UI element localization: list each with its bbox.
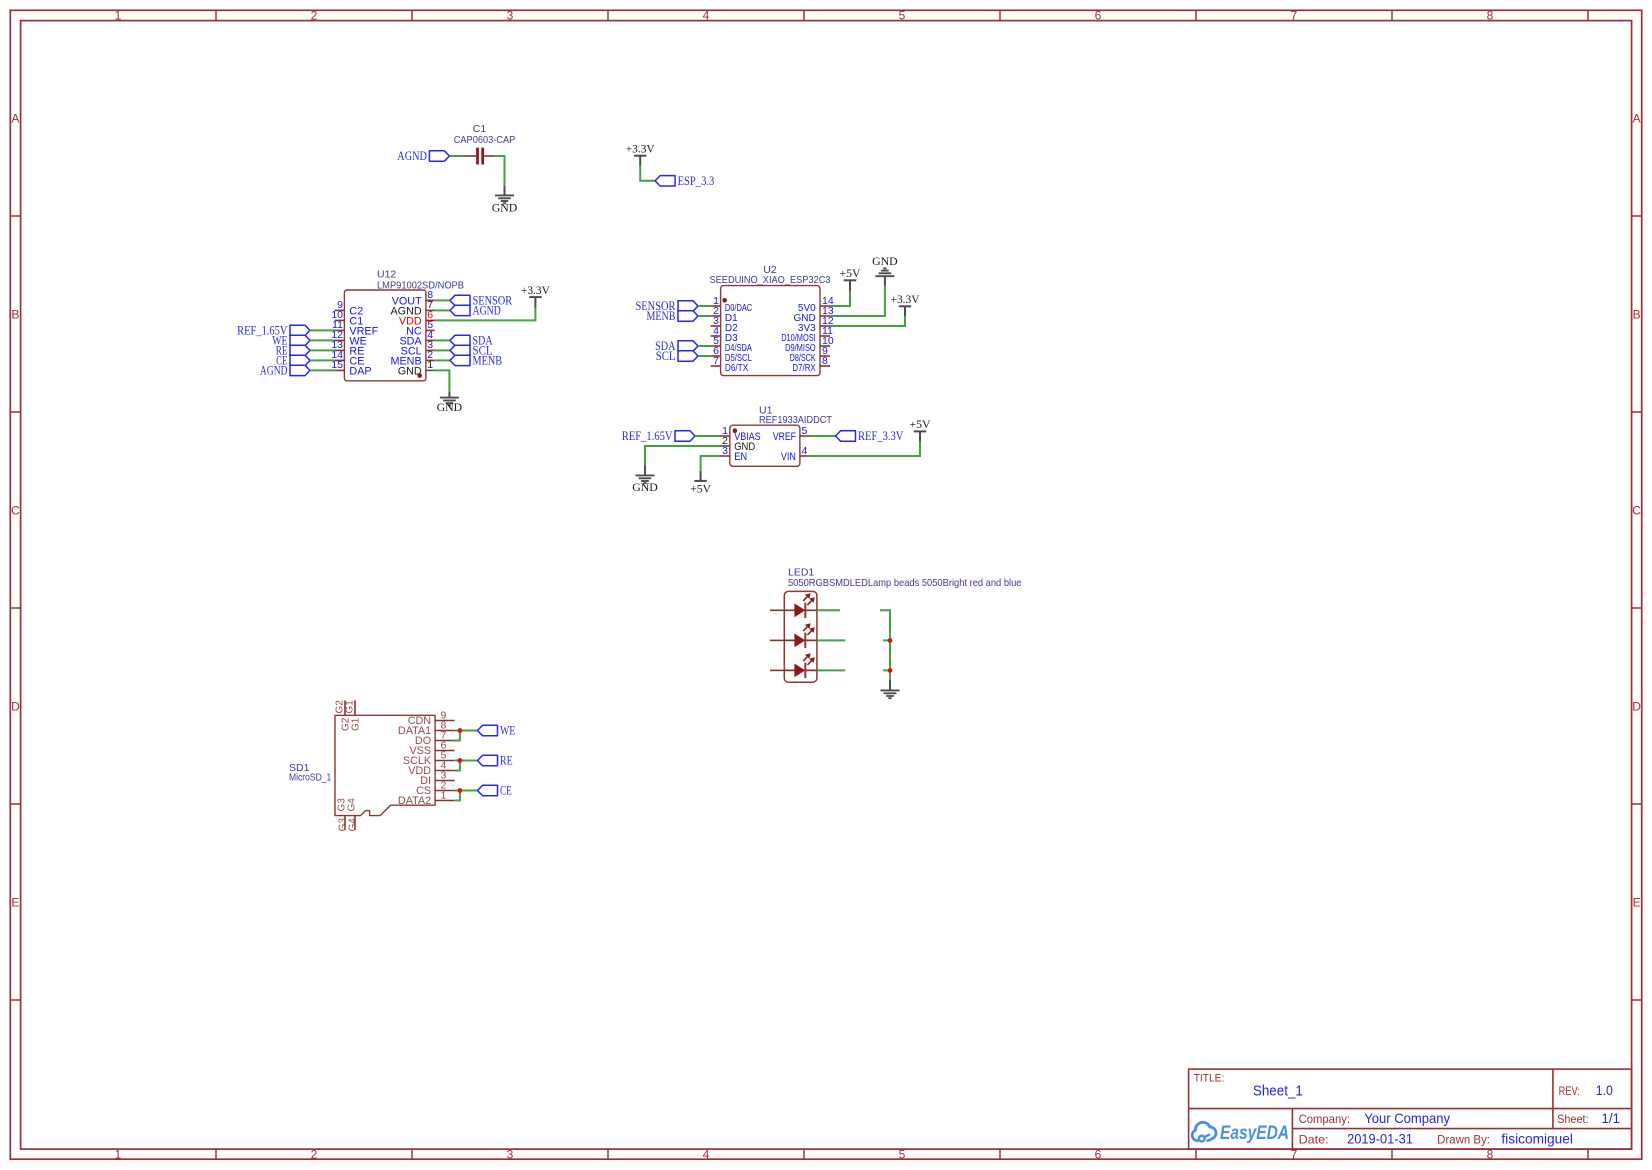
svg-text:AGND: AGND <box>397 148 427 163</box>
net flag SENSOR (U2) <box>636 298 699 313</box>
wire U1 VREF to REF_3.3V flag <box>810 435 836 437</box>
pin U2 pin 3 <box>711 325 721 327</box>
wire +3.3V stem (U2 right) (power stem) <box>904 307 906 317</box>
power symbol +5V (U1 right) <box>910 417 931 431</box>
wire U12 VDD to +3.3V <box>435 308 536 321</box>
svg-text:GND: GND <box>492 200 518 214</box>
pin C1 pin 2 <box>484 155 494 157</box>
svg-text:3: 3 <box>722 445 728 457</box>
wire +5V stem (U1 right) (power stem) <box>919 432 921 441</box>
wire U1 GND to ground <box>645 446 720 466</box>
svg-text:VREF: VREF <box>773 431 796 443</box>
wire SD1 lower pin join for RE <box>455 761 460 771</box>
wire SD1 to CE flag <box>455 790 478 792</box>
svg-text:D6/TX: D6/TX <box>725 363 749 374</box>
svg-text:EasyEDA: EasyEDA <box>1220 1123 1289 1144</box>
power symbol +3.3V (ESP) <box>626 142 655 156</box>
ground symbol GND (LED1) <box>881 690 900 698</box>
svg-text:CAP0603-CAP: CAP0603-CAP <box>454 134 516 146</box>
wire SENSOR flag to U2 pin 1 <box>698 305 711 307</box>
wire SD1 to WE flag <box>455 730 478 732</box>
svg-text:GND: GND <box>632 480 658 494</box>
svg-text:+5V: +5V <box>840 266 861 280</box>
pin U1 pin 1 <box>720 435 730 437</box>
svg-text:MENB: MENB <box>647 308 676 323</box>
wire C1 ground stem (power stem) <box>504 186 506 196</box>
junction LED1 junction B <box>888 668 893 673</box>
svg-text:SCL: SCL <box>656 348 676 363</box>
pin U12 pin 6 <box>426 319 435 321</box>
wire CE flag to U12 <box>310 359 335 361</box>
svg-text:2019-01-31: 2019-01-31 <box>1347 1131 1413 1147</box>
wire U2 ground stem (power stem) <box>884 276 886 285</box>
wire U1 VIN to +5V <box>810 441 921 456</box>
pin U12 pin 10 <box>335 319 345 321</box>
svg-text:AGND: AGND <box>473 303 501 318</box>
pin U1 pin 4 <box>800 455 810 457</box>
op-amp U12 LMP91002SD/NOPB <box>344 269 464 381</box>
pin SD1 pin G1 (top) <box>354 700 356 715</box>
wire LED1 ground stem (power stem) <box>889 679 891 690</box>
wire LED1 right pin at y=670.4 <box>817 669 845 671</box>
wire AGND flag to U12 <box>310 369 335 371</box>
wire U2 GND to ground <box>830 286 885 316</box>
pin U2 pin 11 <box>820 335 830 337</box>
net flag SCL (U12) <box>450 343 493 358</box>
junction junction CE <box>458 788 463 793</box>
svg-text:VIN: VIN <box>781 451 796 463</box>
svg-text:Your Company: Your Company <box>1364 1110 1450 1126</box>
connector SD1 MicroSD_1 <box>289 715 435 815</box>
wire U12 ground stem (power stem) <box>448 392 450 398</box>
wire RE flag to U12 <box>310 349 335 351</box>
wire U12 pin 2 to MENB flag <box>435 359 450 361</box>
wire REF_1.65V flag to U12 <box>310 329 335 331</box>
pin U2 pin 8 <box>820 365 830 367</box>
svg-text:A: A <box>11 111 19 125</box>
net flag WE (U12 left) <box>272 333 310 348</box>
pin U2 pin 1 <box>711 305 721 307</box>
svg-text:8: 8 <box>822 355 828 367</box>
svg-text:GND: GND <box>398 365 422 377</box>
pin U2 pin 9 <box>820 355 830 357</box>
svg-text:MicroSD_1: MicroSD_1 <box>289 772 331 784</box>
pin U12 pin 1 <box>426 369 435 371</box>
pin LED1 pin 1 (left) <box>770 609 784 611</box>
svg-text:TITLE:: TITLE: <box>1194 1072 1225 1084</box>
pin SD1 pin G4 (bottom) <box>354 816 356 830</box>
svg-text:D7/RX: D7/RX <box>792 363 816 374</box>
regulator U1 REF1933AIDDCT <box>730 404 833 466</box>
svg-text:C: C <box>1632 503 1641 517</box>
pin U2 pin 13 <box>820 315 830 317</box>
wire SDA flag to U2 pin 5 <box>698 345 711 347</box>
wire +3.3V to ESP_3.3 flag <box>640 165 655 181</box>
wire +3.3V stem (ESP) (power stem) <box>639 156 641 166</box>
wire U12 pin 4 to SDA flag <box>435 339 450 341</box>
svg-text:GND: GND <box>872 254 898 268</box>
svg-text:2: 2 <box>311 8 318 22</box>
wire +3.3V stem (U12) (power stem) <box>534 297 536 308</box>
pin U12 pin 15 <box>335 369 345 371</box>
pin U1 pin 2 <box>720 445 730 447</box>
net flag MENB (U2) <box>647 308 699 323</box>
svg-text:+3.3V: +3.3V <box>626 142 655 156</box>
pin U2 pin 12 <box>820 325 830 327</box>
wire +5V stem (U2) (power stem) <box>849 281 851 291</box>
net flag AGND (U12) <box>450 303 501 318</box>
svg-text:G4: G4 <box>347 798 358 812</box>
pin SD1 pin 7 <box>435 740 455 742</box>
svg-text:REV:: REV: <box>1559 1084 1580 1098</box>
pin U12 pin 2 <box>426 359 435 361</box>
svg-text:EN: EN <box>734 451 747 463</box>
pin U12 pin 4 <box>426 339 435 341</box>
svg-text:CE: CE <box>500 783 512 798</box>
svg-text:G1: G1 <box>345 700 356 714</box>
svg-text:C: C <box>11 503 20 517</box>
wire SD1 to RE flag <box>455 760 478 762</box>
pin U1 pin 5 <box>800 435 810 437</box>
power symbol +5V (U2) <box>840 266 861 280</box>
pin SD1 pin 3 <box>435 780 455 782</box>
pin U12 pin 9 <box>335 309 345 311</box>
svg-text:4: 4 <box>703 1148 710 1162</box>
pin SD1 pin G3 (bottom) <box>344 816 346 830</box>
wire LED1 right pin at y=610.3 <box>817 609 840 611</box>
svg-text:fisicomiguel: fisicomiguel <box>1501 1131 1573 1147</box>
net flag SCL (U2) <box>656 348 698 363</box>
wire U12 pin 3 to SCL flag <box>435 349 450 351</box>
ground symbol GND (U12) <box>437 398 463 415</box>
svg-text:A: A <box>1633 111 1641 125</box>
svg-text:Drawn By:: Drawn By: <box>1437 1133 1490 1147</box>
pin U12 pin 3 <box>426 349 435 351</box>
pin U2 pin 5 <box>711 345 721 347</box>
svg-text:4: 4 <box>703 8 710 22</box>
net flag CE (SD1) <box>478 783 512 798</box>
wire SCL flag to U2 pin 6 <box>698 355 711 357</box>
EasyEDA logo <box>1192 1122 1289 1143</box>
pin LED1 pin 3 (left) <box>770 669 784 671</box>
pin SD1 pin 5 <box>435 760 455 762</box>
pin U2 pin 2 <box>711 315 721 317</box>
power symbol +3.3V (U2 right) <box>891 292 920 306</box>
pin U12 pin 7 <box>426 309 435 311</box>
ground symbol GND (U2) <box>875 268 894 276</box>
wire MENB flag to U2 pin 2 <box>698 315 711 317</box>
svg-text:Date:: Date: <box>1299 1133 1329 1147</box>
pin U12 pin 13 <box>335 349 345 351</box>
ground symbol GND (C1) <box>492 195 518 214</box>
svg-text:WE: WE <box>500 723 515 738</box>
svg-text:7: 7 <box>713 355 719 367</box>
svg-text:E: E <box>1633 895 1641 909</box>
svg-text:1: 1 <box>115 1148 122 1162</box>
svg-text:1: 1 <box>427 359 433 371</box>
pin U2 pin 6 <box>711 355 721 357</box>
wire U1 ground stem (power stem) <box>644 466 646 476</box>
pin SD1 pin 4 <box>435 770 455 772</box>
capacitor C1 <box>454 123 516 165</box>
wire U2 5V0 to +5V <box>830 291 850 306</box>
svg-text:Sheet_1: Sheet_1 <box>1253 1083 1303 1100</box>
svg-text:7: 7 <box>1291 8 1298 22</box>
svg-text:LMP91002SD/NOPB: LMP91002SD/NOPB <box>377 279 464 291</box>
svg-text:ESP_3.3: ESP_3.3 <box>678 173 715 188</box>
junction junction RE <box>458 758 463 763</box>
svg-text:SEEDUINO_XIAO_ESP32C3: SEEDUINO_XIAO_ESP32C3 <box>710 274 831 286</box>
svg-text:G4: G4 <box>348 818 359 832</box>
svg-text:1: 1 <box>441 789 447 801</box>
pin U12 pin 14 <box>335 359 345 361</box>
pin U12 pin 8 <box>426 299 435 301</box>
svg-text:DAP: DAP <box>349 365 371 377</box>
wire AGND flag to C1 pin 1 <box>449 155 465 157</box>
net flag AGND (U12 left) <box>260 363 310 378</box>
pin U2 pin 7 <box>711 365 721 367</box>
svg-text:8: 8 <box>1487 8 1494 22</box>
pin U12 pin 11 <box>335 329 345 331</box>
svg-text:RE: RE <box>500 753 513 768</box>
svg-text:1/1: 1/1 <box>1601 1110 1620 1126</box>
power symbol +5V (U1 below) <box>690 481 711 496</box>
net flag MENB (U12) <box>450 353 502 368</box>
net flag SENSOR (U12) <box>450 293 512 308</box>
svg-text:2: 2 <box>311 1148 318 1162</box>
pin LED1 pin 2 (left) <box>770 639 784 641</box>
wire LED1 right pin at y=640.4 <box>817 639 845 641</box>
svg-text:B: B <box>11 307 19 321</box>
net flag REF_3.3V <box>836 428 904 443</box>
wire +5V stem (U1 below) (power stem) <box>700 471 702 481</box>
net flag REF_1.65V (U1) <box>622 428 695 443</box>
LED LED1 5050RGBSMDLED <box>784 567 1021 683</box>
svg-text:G1: G1 <box>350 717 361 731</box>
svg-text:+5V: +5V <box>690 481 711 495</box>
svg-text:MENB: MENB <box>473 353 503 368</box>
svg-text:6: 6 <box>1095 8 1102 22</box>
pin SD1 pin G2 (top) <box>344 700 346 715</box>
svg-text:5: 5 <box>899 8 906 22</box>
svg-text:4: 4 <box>802 445 808 457</box>
svg-text:REF_3.3V: REF_3.3V <box>858 428 904 443</box>
svg-text:E: E <box>11 895 19 909</box>
svg-text:5: 5 <box>802 425 808 437</box>
svg-text:Company:: Company: <box>1299 1112 1350 1126</box>
svg-text:3: 3 <box>507 8 514 22</box>
net flag RE (SD1) <box>478 753 513 768</box>
svg-text:B: B <box>1633 307 1641 321</box>
svg-text:+3.3V: +3.3V <box>891 292 920 306</box>
net flag RE (U12 left) <box>276 343 310 358</box>
diode LED1 element 2 <box>784 623 817 648</box>
wire stub into junction 2 <box>883 669 890 671</box>
pin U2 pin 4 <box>711 335 721 337</box>
svg-text:DATA2: DATA2 <box>398 795 431 807</box>
svg-text:GND: GND <box>437 400 463 414</box>
svg-text:3: 3 <box>507 1148 514 1162</box>
wire SD1 lower pin join for CE <box>455 791 460 801</box>
pin SD1 pin 6 <box>435 750 455 752</box>
svg-text:D: D <box>1632 699 1641 713</box>
pin SD1 pin 2 <box>435 790 455 792</box>
wire SD1 lower pin join for WE <box>455 731 460 741</box>
svg-text:5050RGBSMDLEDLamp beads 5050Br: 5050RGBSMDLEDLamp beads 5050Bright red a… <box>788 577 1022 589</box>
pin U1 pin 3 <box>720 455 730 457</box>
net flag CE (U12 left) <box>276 353 310 368</box>
svg-text:REF1933AIDDCT: REF1933AIDDCT <box>759 414 833 426</box>
power symbol +3.3V (U12) <box>521 283 550 297</box>
pin SD1 pin 8 <box>435 730 455 732</box>
svg-text:+5V: +5V <box>910 417 931 431</box>
pin U2 pin 14 <box>820 305 830 307</box>
module U2 SEEDUINO_XIAO_ESP32C3 <box>710 264 831 376</box>
ground symbol GND (U1) <box>632 475 658 494</box>
wire U12 GND pin to ground <box>435 370 450 392</box>
svg-text:6: 6 <box>1095 1148 1102 1162</box>
svg-text:REF_1.65V: REF_1.65V <box>622 428 673 443</box>
wire WE flag to U12 <box>310 339 335 341</box>
wire REF_1.65V flag to U1 pin 1 <box>695 435 720 437</box>
wire U1 EN to +5V <box>701 456 720 471</box>
wire U12 pin 7 to AGND flag <box>435 309 450 311</box>
svg-text:AGND: AGND <box>260 363 288 378</box>
net flag SDA (U12) <box>450 333 493 348</box>
svg-text:5: 5 <box>899 1148 906 1162</box>
pin SD1 pin 1 <box>435 800 455 802</box>
wire C1 pin 2 to GND <box>494 156 504 186</box>
pin U12 pin 12 <box>335 339 345 341</box>
wire U2 3V3 to +3.3V <box>830 316 905 326</box>
wire stub into junction 1 <box>883 639 890 641</box>
title block <box>1189 1069 1632 1149</box>
net flag SDA (U2) <box>655 338 698 353</box>
pin U2 pin 10 <box>820 345 830 347</box>
net flag ESP_3.3 <box>655 173 714 188</box>
diode LED1 element 1 <box>784 593 817 618</box>
wire LED1 common vertical wire <box>880 610 890 679</box>
net flag WE (SD1) <box>478 723 516 738</box>
diode LED1 element 3 <box>784 653 817 678</box>
svg-text:1: 1 <box>115 8 122 22</box>
svg-text:D: D <box>11 699 20 713</box>
junction junction WE <box>458 728 463 733</box>
junction LED1 junction A <box>888 638 893 643</box>
svg-text:1.0: 1.0 <box>1596 1082 1613 1098</box>
svg-text:Sheet:: Sheet: <box>1557 1112 1589 1126</box>
wire U12 pin 8 to SENSOR flag <box>435 299 450 301</box>
net flag REF_1.65V (U12 left) <box>237 323 310 338</box>
pin C1 pin 1 <box>465 155 476 157</box>
svg-text:+3.3V: +3.3V <box>521 283 550 297</box>
pin U12 pin 5 <box>426 329 435 331</box>
net flag AGND (C1) <box>397 148 449 163</box>
pin SD1 pin 9 <box>435 720 455 722</box>
